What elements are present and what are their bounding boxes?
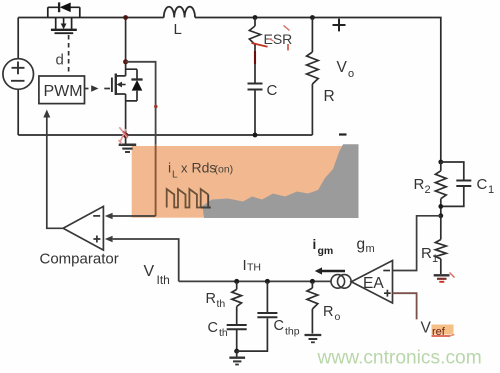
- transistor Q2 (low-side NMOS): [116, 18, 126, 76]
- PWM block: [39, 76, 85, 104]
- label + (output): [333, 19, 346, 32]
- svg-text:TH: TH: [247, 262, 261, 274]
- wire: feedback to EA minus: [393, 216, 441, 271]
- wire: R2 node to R1: [440, 216, 442, 240]
- inductor L: [164, 7, 195, 18]
- node: switch node dot on rail: [123, 15, 128, 20]
- waveform iL ripple (on banner): [167, 189, 209, 208]
- node: C1 rejoin dot: [438, 204, 443, 209]
- node: feedback tap dot: [438, 213, 443, 218]
- wire: comparator minus input: [112, 215, 155, 217]
- svg-text:gm: gm: [318, 245, 334, 257]
- svg-text:C: C: [477, 176, 488, 193]
- wire: source bottom: [17, 89, 19, 135]
- body diode D2: [126, 69, 137, 101]
- svg-text:g: g: [357, 236, 366, 253]
- resistor R2: [435, 171, 446, 199]
- svg-text:x: x: [181, 161, 188, 176]
- svg-text:L: L: [174, 21, 182, 38]
- svg-text:R: R: [324, 88, 335, 105]
- svg-text:V: V: [421, 320, 432, 337]
- PWM to gate dashed arrow: [85, 88, 91, 90]
- capacitor C1 branch: [441, 162, 464, 206]
- node: R load branch dot: [310, 15, 315, 20]
- svg-text:EA: EA: [363, 275, 384, 292]
- resistor R1: [435, 240, 446, 259]
- label - (output): [339, 133, 347, 135]
- svg-text:Comparator: Comparator: [40, 251, 119, 268]
- svg-text:i: i: [168, 160, 171, 176]
- orange highlight banner: [132, 146, 359, 218]
- node: ground junction dot: [123, 133, 128, 138]
- wire: R2 bottom: [440, 199, 442, 216]
- svg-text:thp: thp: [285, 326, 300, 338]
- wire: comparator output to PWM: [47, 117, 63, 228]
- svg-text:PWM: PWM: [44, 83, 83, 100]
- svg-text:i: i: [313, 237, 317, 252]
- wire: top rail right segment: [195, 18, 441, 163]
- resistor Rth: [232, 281, 242, 324]
- node: dot at bottom rail: [253, 133, 258, 138]
- wire: R to bottom rail: [311, 84, 313, 135]
- svg-text:d: d: [56, 52, 64, 69]
- wire: bottom rail: [18, 134, 312, 136]
- node: ESR branch dot: [253, 15, 258, 20]
- node: Rth dot: [234, 279, 239, 284]
- wire: source top: [17, 18, 19, 59]
- svg-text:R: R: [206, 291, 216, 307]
- wire: ESR branch top: [254, 18, 256, 27]
- wire: EA plus to Vref (dark red): [393, 293, 417, 319]
- svg-text:www.cntronics.com: www.cntronics.com: [317, 348, 482, 369]
- svg-text:R: R: [414, 176, 425, 193]
- svg-text:R: R: [421, 245, 432, 262]
- svg-text:th: th: [219, 327, 228, 339]
- wire: ESR to C (with red mark): [254, 45, 256, 52]
- svg-text:Rds: Rds: [192, 160, 217, 176]
- transistor Q1 (high-side PMOS): [56, 18, 72, 30]
- ground (R1): [434, 274, 450, 276]
- svg-text:2: 2: [425, 184, 431, 196]
- svg-text:C: C: [208, 320, 218, 336]
- error amplifier EA: [351, 261, 392, 304]
- node: Cthp dot: [265, 279, 270, 284]
- wire: to R2: [440, 162, 442, 171]
- svg-text:R: R: [323, 304, 333, 320]
- svg-text:V: V: [144, 263, 155, 280]
- gray blob watermark remnant: [203, 144, 359, 218]
- body diode D1: [48, 7, 80, 17]
- wire: R branch top: [311, 18, 313, 53]
- svg-text:o: o: [335, 311, 341, 323]
- resistor ESR: [249, 26, 260, 45]
- svg-text:(on): (on): [215, 164, 234, 176]
- wire: comparator plus input from Vlth: [113, 239, 179, 281]
- svg-text:V: V: [337, 59, 348, 76]
- capacitor C: [248, 83, 263, 85]
- ground (Cth): [236, 351, 238, 357]
- arrow igm: [322, 270, 345, 273]
- svg-text:1: 1: [488, 184, 494, 196]
- node: Cth/Cthp junction dot: [234, 349, 239, 354]
- svg-text:1: 1: [432, 253, 438, 265]
- ground (Ro): [305, 334, 322, 336]
- svg-text:th: th: [217, 298, 226, 310]
- wire: ITH rail: [179, 280, 331, 282]
- node: Vo feedback dot: [438, 160, 443, 165]
- capacitor Cthp: [266, 281, 268, 312]
- resistor Ro: [307, 281, 318, 333]
- capacitor Cth: [227, 324, 247, 326]
- label Vref: [432, 325, 454, 335]
- node: sense tap dot: [123, 59, 128, 64]
- wire: top rail left segment: [18, 17, 164, 19]
- wire: R1 to ground: [440, 259, 442, 274]
- gate dashed line d: [68, 35, 70, 75]
- svg-text:m: m: [366, 243, 375, 255]
- comparator U1: [63, 206, 103, 250]
- voltage source V1: [3, 59, 34, 90]
- svg-text:Ith: Ith: [157, 273, 170, 287]
- wire: C to bottom rail: [254, 91, 256, 136]
- red artifact on sense line: [154, 105, 158, 109]
- red annotation artifacts on ESR: [252, 43, 268, 47]
- wire: current sense line (upper): [126, 62, 156, 144]
- wire: current sense line inside banner: [155, 144, 157, 216]
- svg-text:C: C: [274, 318, 284, 334]
- red annotation artifact at ground junction: [119, 127, 128, 144]
- node: Ro dot: [310, 279, 315, 284]
- svg-text:C: C: [267, 82, 278, 99]
- resistor R (load): [307, 52, 319, 84]
- ground (power, below Q2): [119, 144, 137, 147]
- svg-text:L: L: [172, 170, 178, 181]
- current source gm: [331, 275, 345, 289]
- svg-text:o: o: [348, 68, 354, 80]
